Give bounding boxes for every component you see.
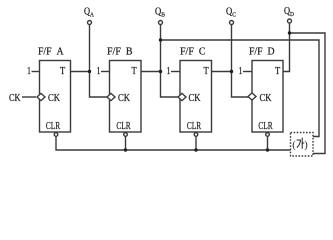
terminal QD — [288, 19, 292, 23]
svg-text:(: ( — [292, 140, 296, 151]
svg-text:1: 1 — [27, 66, 31, 77]
svg-text:QD: QD — [284, 6, 294, 18]
svg-text:QB: QB — [155, 7, 166, 19]
svg-text:CK: CK — [48, 93, 61, 104]
wire feedback QB to gate upper input — [161, 40, 320, 137]
svg-text:F/F B: F/F B — [107, 47, 133, 58]
wire T input 1 to F/F A — [32, 71, 40, 73]
terminal QB — [159, 21, 163, 25]
wire T input 1 to F/F B — [101, 71, 110, 73]
wire node QB up to terminal — [160, 25, 162, 72]
svg-text:QA: QA — [84, 7, 94, 19]
svg-text:CLR: CLR — [46, 121, 60, 132]
svg-text:1: 1 — [97, 66, 101, 77]
svg-text:F/F D: F/F D — [249, 47, 275, 58]
svg-text:CK: CK — [260, 93, 273, 104]
wire CK input — [22, 96, 36, 98]
wire node QC down to F/F D clock — [232, 72, 250, 98]
svg-text:T: T — [132, 66, 137, 77]
svg-text:CLR: CLR — [187, 121, 201, 132]
svg-text:T: T — [275, 66, 280, 77]
wire F/F A output to node QA — [71, 71, 90, 73]
wire node QB down to F/F C clock — [161, 72, 179, 98]
terminal QA — [88, 21, 92, 25]
clock wedge F/F C — [178, 93, 186, 100]
wire T input 1 to F/F C — [171, 71, 180, 73]
junction clear rail C — [194, 148, 197, 151]
svg-text:CLR: CLR — [258, 121, 272, 132]
svg-text:1: 1 — [239, 66, 243, 77]
wire node QA up to terminal — [89, 25, 91, 72]
junction clear rail D — [266, 148, 269, 151]
wire F/F B output to node QB — [141, 71, 161, 73]
junction node QA output — [88, 70, 91, 73]
flip-flop F/F B box — [110, 61, 142, 133]
wire T input 1 to F/F D — [243, 71, 252, 73]
wire F/F C output to node QC — [212, 71, 232, 73]
clock wedge F/F A — [37, 93, 45, 100]
svg-text:F/F C: F/F C — [180, 47, 206, 58]
svg-text:CK: CK — [189, 93, 202, 104]
svg-text:1: 1 — [167, 66, 171, 77]
svg-text:CLR: CLR — [116, 121, 130, 132]
inverter bubble F/F C CLR — [194, 133, 198, 137]
svg-text:CK: CK — [9, 93, 21, 104]
junction node QC output — [230, 70, 233, 73]
clock wedge F/F B — [107, 93, 115, 100]
clock wedge F/F D — [248, 93, 256, 100]
svg-text:): ) — [304, 140, 308, 151]
svg-text:QC: QC — [226, 7, 236, 19]
wire node QC up to terminal — [231, 25, 233, 72]
inverter bubble F/F D CLR — [266, 133, 270, 137]
wire node QA down to F/F B clock — [90, 72, 108, 98]
wire F/F B CLR drop — [125, 137, 127, 150]
svg-text:CK: CK — [118, 93, 131, 104]
flip-flop F/F D box — [252, 61, 283, 133]
gate label (가) — [292, 138, 308, 151]
junction node QB feedback — [159, 38, 162, 41]
flip-flop F/F A box — [40, 61, 71, 133]
junction clear rail B — [124, 148, 127, 151]
junction node QD feedback — [288, 31, 291, 34]
svg-text:T: T — [204, 66, 209, 77]
inverter bubble F/F A CLR — [54, 133, 58, 137]
wire F/F A CLR drop and common clear rail — [56, 137, 291, 150]
wire F/F D CLR drop — [267, 137, 269, 150]
wire F/F D output to node QD — [283, 23, 290, 71]
inverter bubble F/F B CLR — [124, 133, 128, 137]
terminal QC — [230, 21, 234, 25]
wire feedback QD to gate lower input — [290, 33, 326, 154]
svg-text:F/F A: F/F A — [38, 47, 64, 58]
wire F/F C CLR drop — [195, 137, 197, 150]
junction node QB output — [159, 70, 162, 73]
svg-text:T: T — [60, 66, 65, 77]
gate (가) dashed box — [291, 133, 314, 157]
flip-flop F/F C box — [180, 61, 212, 133]
